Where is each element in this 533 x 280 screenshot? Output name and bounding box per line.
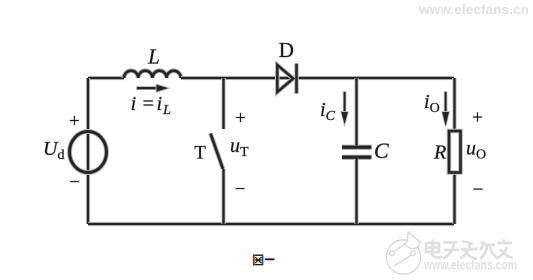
svg-text:R: R xyxy=(433,142,446,164)
svg-text:T: T xyxy=(194,142,206,163)
wire right vertical xyxy=(452,78,456,224)
current arrow iO xyxy=(442,92,449,126)
capacitor C lower wire xyxy=(354,159,358,225)
caption figure-1 glyph "tu" box xyxy=(254,255,263,264)
wire top right segment xyxy=(181,76,454,80)
current arrow i=iL xyxy=(137,85,168,92)
svg-text:iC: iC xyxy=(320,99,336,124)
wire left vertical xyxy=(86,78,90,224)
svg-text:D: D xyxy=(279,38,294,62)
resistor R body xyxy=(449,131,461,173)
svg-text:i=iL: i=iL xyxy=(131,93,172,118)
svg-text:C: C xyxy=(374,138,389,163)
inductor L xyxy=(124,71,181,78)
voltage source Ud circle xyxy=(70,132,107,173)
svg-text:−: − xyxy=(473,179,484,200)
switch T lower wire xyxy=(221,169,225,224)
caption figure-1 dash "yi" xyxy=(265,258,275,260)
capacitor C upper wire xyxy=(354,78,358,146)
svg-text:+: + xyxy=(69,111,80,132)
current arrow iC xyxy=(341,92,348,124)
switch T upper wire xyxy=(221,78,225,129)
svg-text:+: + xyxy=(235,108,246,129)
switch T blade xyxy=(211,134,224,170)
watermark elecfans logo xyxy=(386,232,420,274)
svg-text:+: + xyxy=(472,108,483,129)
svg-text:iO: iO xyxy=(424,91,440,116)
wire top left segment xyxy=(88,76,124,80)
svg-text:Ud: Ud xyxy=(43,138,64,163)
svg-text:L: L xyxy=(147,44,160,68)
svg-text:www.elecfans.cn: www.elecfans.cn xyxy=(418,3,529,17)
wire bottom xyxy=(88,222,454,226)
svg-text:www.elecfans.com: www.elecfans.com xyxy=(423,257,517,273)
diode D symbol xyxy=(277,64,296,94)
svg-text:uT: uT xyxy=(230,135,249,160)
watermark text dianzifashaoyou xyxy=(426,240,513,260)
svg-text:uO: uO xyxy=(466,138,486,163)
svg-text:−: − xyxy=(69,172,80,193)
capacitor C plates xyxy=(342,147,372,157)
svg-text:−: − xyxy=(235,179,246,200)
